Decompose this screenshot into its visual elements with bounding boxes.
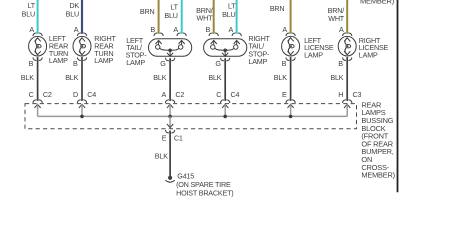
svg-text:LAMP: LAMP [359, 50, 378, 59]
svg-text:A: A [282, 25, 287, 34]
svg-text:C3: C3 [353, 90, 362, 99]
wire BRN feed left tail [140, 0, 159, 34]
ground G415 [165, 176, 174, 183]
pin G of left tail/stop lamp [160, 53, 175, 68]
svg-text:A: A [173, 25, 178, 34]
pin B of right tail/stop lamp [205, 25, 218, 44]
label wire color DK BLU [66, 1, 80, 19]
wire LT BLU feed right tail [222, 0, 236, 34]
svg-text:MEMBER): MEMBER) [360, 0, 395, 5]
wire BLK right license [330, 57, 347, 101]
pin A of left license lamp [282, 25, 295, 42]
vertical border line [397, 0, 399, 192]
svg-text:LAMP: LAMP [49, 56, 68, 65]
pin A of left tail/stop lamp [173, 25, 186, 44]
svg-text:BLK: BLK [155, 152, 168, 161]
connector left license pin E [282, 90, 295, 116]
svg-text:BLK: BLK [208, 73, 221, 82]
svg-text:E: E [162, 133, 167, 142]
svg-text:WHT: WHT [197, 13, 214, 22]
label right rear turn lamp [94, 34, 116, 65]
label left tail/stop lamp [126, 36, 148, 67]
svg-text:WHT: WHT [328, 14, 345, 23]
svg-text:A: A [161, 90, 166, 99]
svg-text:HOIST BRACKET): HOIST BRACKET) [176, 188, 233, 197]
wire BRN/WHT feed [346, 0, 348, 34]
connector C2 left tail pin A [161, 90, 184, 116]
wire BLK left tail/stop [153, 58, 170, 101]
wire LT BLU feed [37, 0, 39, 34]
pin G of right tail/stop lamp [215, 53, 230, 68]
lamp left license lamp [282, 36, 300, 56]
svg-text:BRN: BRN [140, 7, 155, 16]
pin B of right rear turn lamp [73, 51, 87, 68]
connector C4 right turn pin D [73, 90, 96, 116]
svg-text:E: E [282, 90, 287, 99]
wire LT BLU feed left tail [164, 0, 181, 34]
wire BLK right rear turn [65, 57, 82, 101]
wire BLK left rear turn [21, 57, 38, 101]
svg-text:LAMP: LAMP [126, 58, 145, 67]
pin A of left rear turn lamp [29, 25, 42, 42]
svg-text:LAMP: LAMP [304, 50, 323, 59]
label left license lamp [304, 36, 334, 60]
wire BRN feed [290, 0, 292, 34]
svg-text:A: A [29, 25, 34, 34]
wire BLK to ground [155, 131, 170, 176]
connector C4 right tail pin C [216, 90, 239, 116]
svg-text:BLU: BLU [164, 11, 177, 20]
filaments of right tail/stop lamp [211, 40, 238, 56]
lamp left tail/stop lamp body [149, 39, 192, 57]
svg-text:BRN: BRN [270, 4, 285, 13]
svg-text:B: B [338, 59, 343, 68]
svg-text:B: B [73, 59, 78, 68]
svg-text:A: A [339, 25, 344, 34]
connector C2 left turn pin C [29, 90, 52, 116]
svg-text:BLK: BLK [330, 73, 343, 82]
label right license lamp [359, 36, 389, 60]
svg-text:B: B [205, 25, 210, 34]
svg-text:BLK: BLK [274, 73, 287, 82]
connector C1 pin E exit [162, 116, 183, 142]
svg-text:BLK: BLK [21, 73, 34, 82]
svg-text:BLK: BLK [153, 73, 166, 82]
wire BLK right tail/stop [208, 58, 225, 101]
lamp left rear turn lamp [29, 36, 47, 56]
wire BRN/WHT feed right tail [196, 0, 214, 34]
rear lamps bussing block outline [25, 104, 357, 129]
filaments of left tail/stop lamp [156, 40, 183, 56]
svg-text:BLU: BLU [22, 10, 35, 19]
lamp right rear turn lamp [73, 36, 91, 56]
svg-text:A: A [74, 25, 79, 34]
label wire color LT BLU [22, 1, 36, 19]
lamp right license lamp [338, 36, 356, 56]
svg-text:G: G [215, 59, 221, 68]
svg-text:C1: C1 [174, 133, 183, 142]
label wire color BRN/WHT [328, 6, 345, 23]
svg-text:LAMP: LAMP [248, 57, 267, 66]
svg-text:D: D [73, 90, 78, 99]
pin A of right tail/stop lamp [228, 25, 241, 44]
pin A of right license lamp [339, 25, 352, 42]
svg-text:BLK: BLK [65, 73, 78, 82]
svg-text:C2: C2 [43, 90, 52, 99]
pin B of left rear turn lamp [29, 51, 43, 68]
label right tail/stop lamp [248, 34, 270, 66]
svg-text:C: C [216, 90, 221, 99]
svg-text:C4: C4 [231, 90, 240, 99]
bus wire inside block [38, 115, 348, 117]
svg-text:B: B [282, 59, 287, 68]
svg-text:C: C [29, 90, 34, 99]
label left rear turn lamp [49, 34, 68, 65]
junction dots [80, 115, 292, 119]
lamp right tail/stop lamp body [204, 39, 247, 57]
pin B of left license lamp [282, 51, 296, 68]
svg-text:G: G [160, 59, 166, 68]
connector C3 right license pin H [338, 90, 361, 116]
svg-text:A: A [228, 25, 233, 34]
wire DK BLU feed [81, 0, 83, 34]
pin B of right license lamp [338, 51, 352, 68]
pin B of left tail/stop lamp [150, 25, 163, 44]
label G415 [176, 172, 233, 198]
pin A of right rear turn lamp [74, 25, 87, 42]
label rear lamps bussing block [361, 100, 395, 179]
svg-text:B: B [150, 25, 155, 34]
wire BLK left license [274, 57, 291, 101]
svg-text:MEMBER): MEMBER) [361, 171, 395, 180]
svg-text:B: B [29, 59, 34, 68]
clipped label MEMBER) top right [360, 0, 395, 5]
svg-text:BLU: BLU [66, 10, 79, 19]
svg-text:C4: C4 [87, 90, 96, 99]
svg-text:BLU: BLU [222, 10, 235, 19]
svg-text:C2: C2 [175, 90, 184, 99]
svg-text:LAMP: LAMP [94, 56, 113, 65]
svg-text:H: H [338, 90, 343, 99]
label wire color BRN [270, 4, 285, 13]
